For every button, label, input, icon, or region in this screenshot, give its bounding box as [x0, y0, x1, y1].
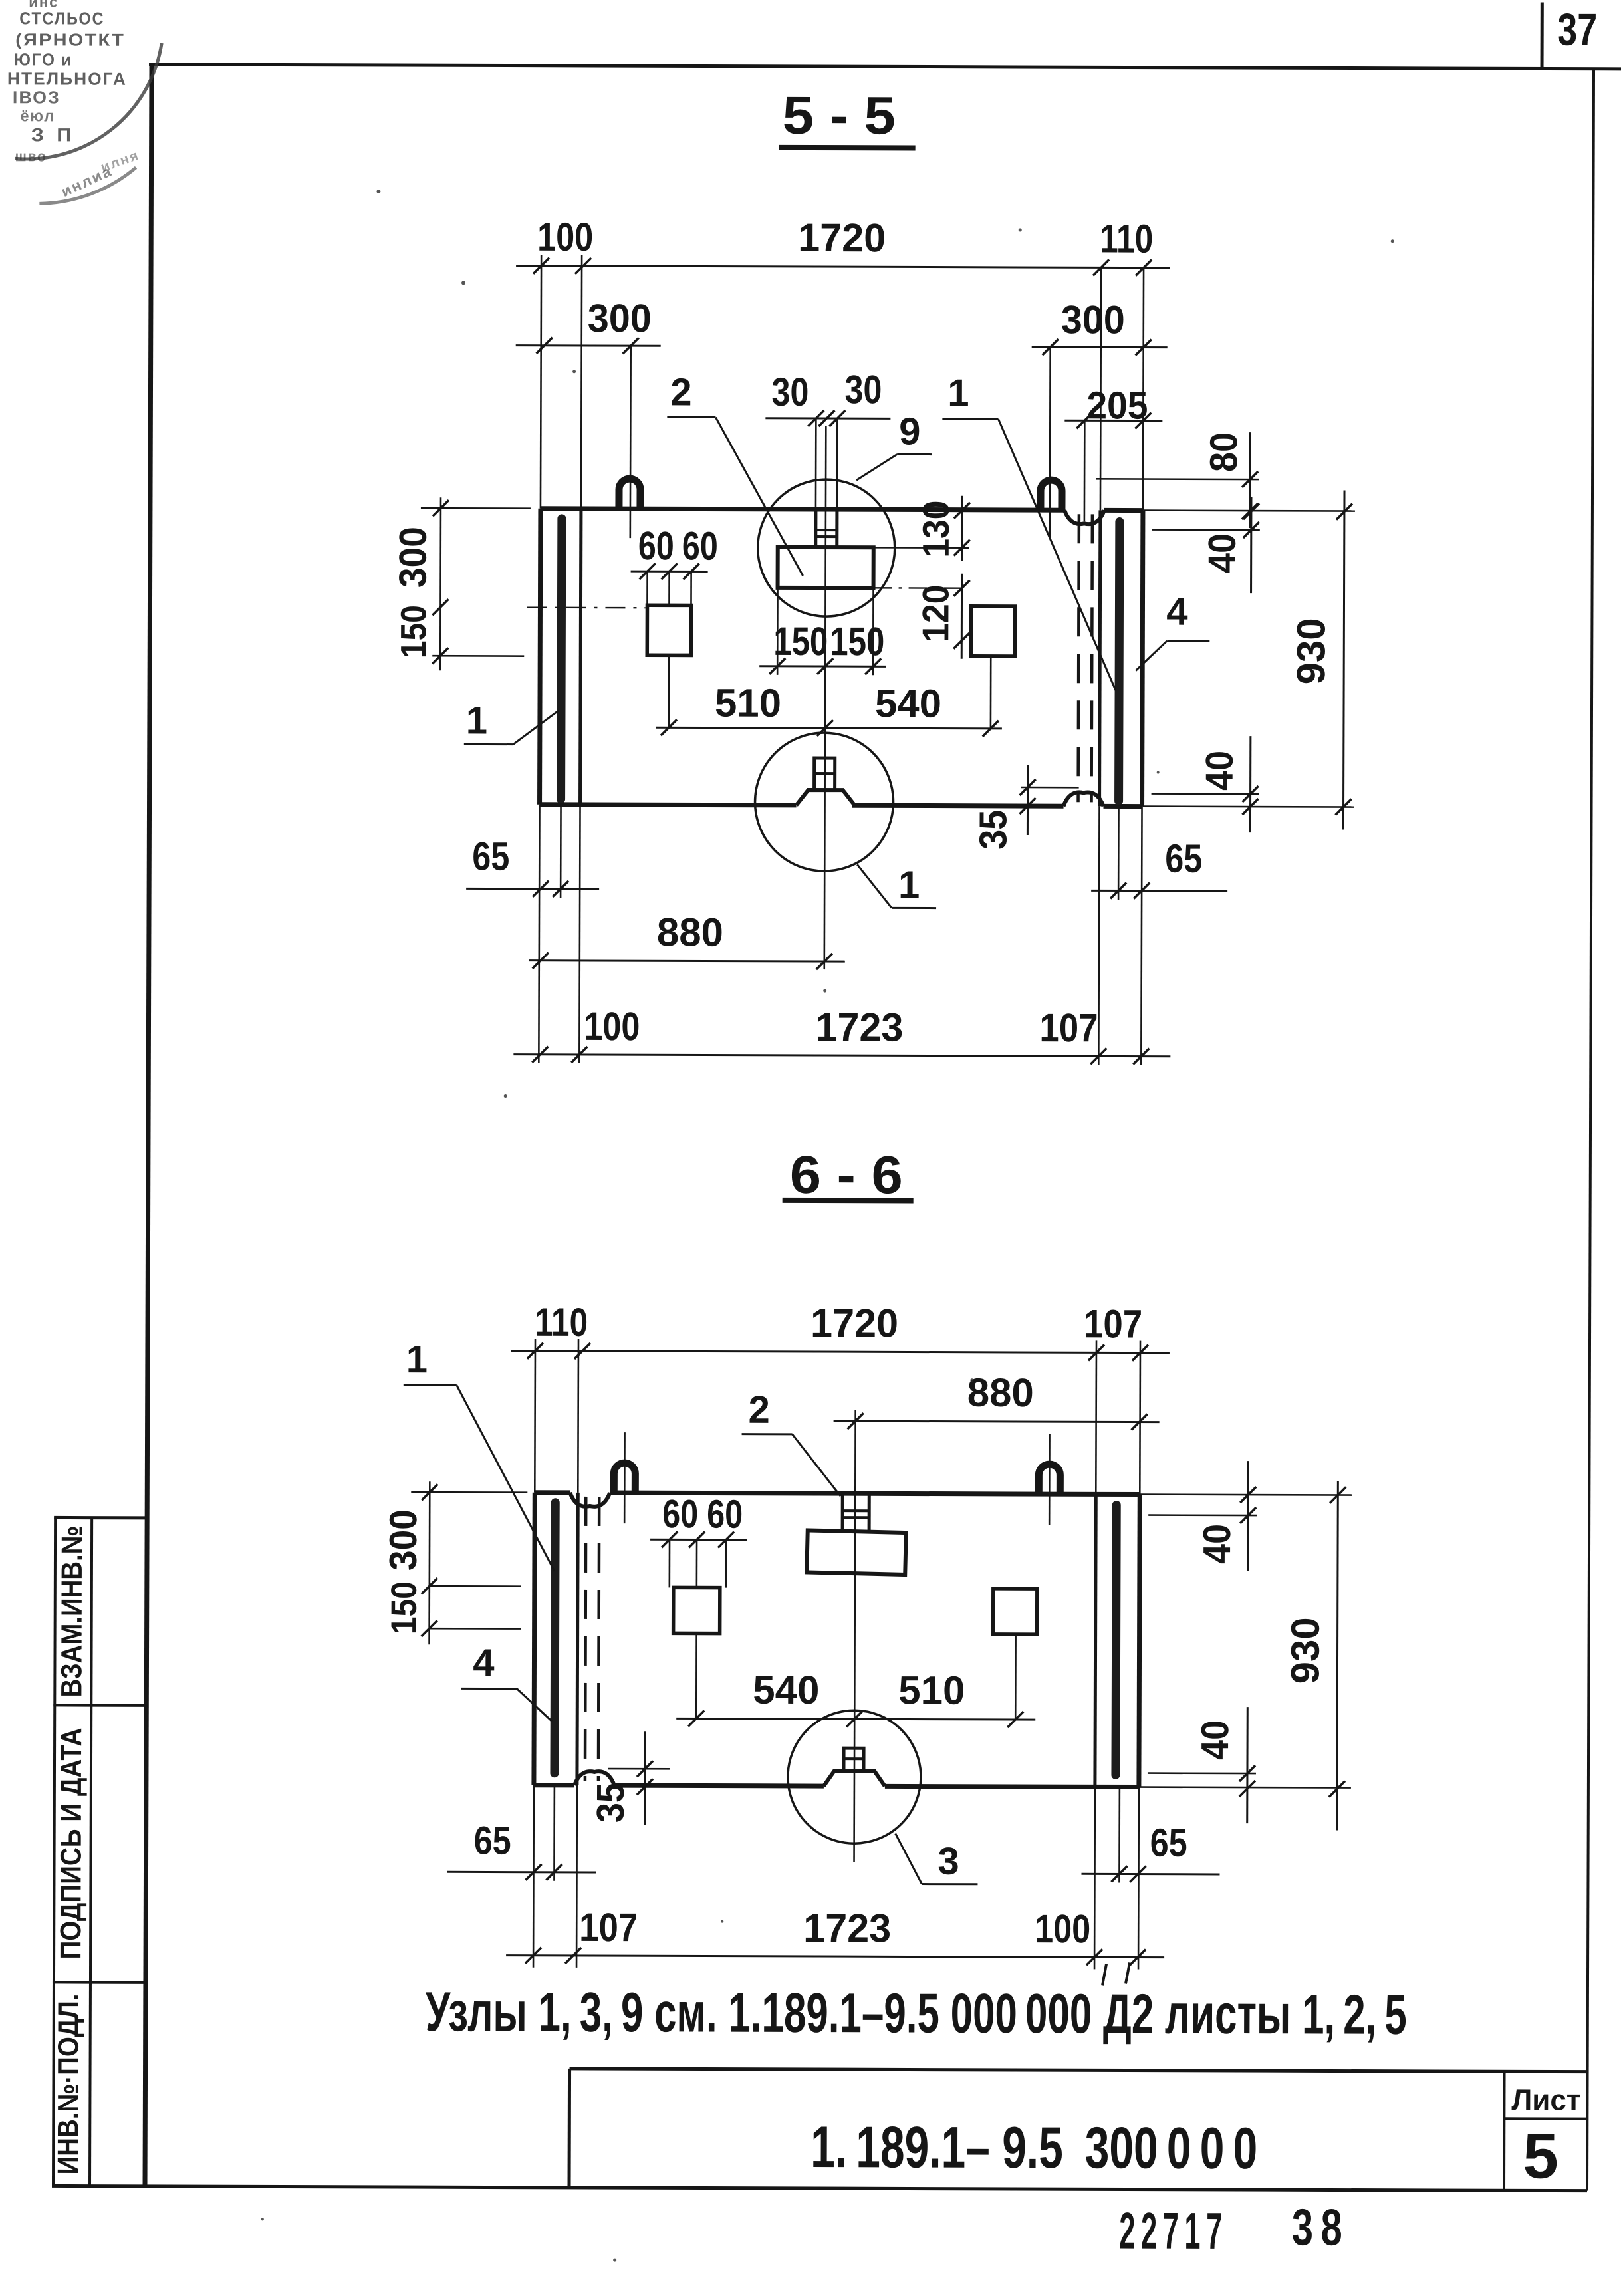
svg-text:37: 37 — [1557, 5, 1597, 55]
svg-text:НТЕЛЬНОГА: НТЕЛЬНОГА — [7, 68, 127, 89]
svg-text:540: 540 — [753, 1668, 819, 1712]
dim 65 right (6-6) — [1081, 1873, 1219, 1876]
svg-text:150: 150 — [394, 605, 434, 658]
svg-text:880: 880 — [967, 1370, 1034, 1415]
scan speckles — [376, 190, 380, 193]
panel 6-6 left edge — [534, 1493, 535, 1785]
anchor detail H at top center — [814, 509, 817, 547]
dim 65 left (6-6) — [447, 1871, 596, 1874]
svg-text:40: 40 — [1198, 751, 1241, 791]
corner stamp arc — [15, 43, 162, 159]
svg-text:30: 30 — [771, 370, 809, 414]
svg-text:5: 5 — [1523, 2120, 1559, 2192]
svg-text:ІВОЗ: ІВОЗ — [13, 87, 61, 107]
panel 5-5 centerline — [824, 426, 826, 969]
svg-text:65: 65 — [472, 834, 509, 878]
svg-text:120: 120 — [914, 584, 956, 642]
svg-text:80: 80 — [1202, 432, 1245, 472]
lifting loop right (6-6) — [1039, 1464, 1060, 1494]
panel 6-6 centerline — [854, 1410, 856, 1862]
svg-text:40: 40 — [1201, 533, 1244, 573]
svg-text:40: 40 — [1195, 1524, 1239, 1564]
svg-text:1: 1 — [898, 863, 920, 906]
svg-text:300: 300 — [392, 527, 435, 588]
svg-text:60: 60 — [682, 523, 718, 568]
svg-text:540: 540 — [875, 681, 941, 725]
dim 110/1720/107 top (6-6) — [511, 1351, 1170, 1353]
svg-text:2: 2 — [748, 1388, 769, 1432]
stray pen marks — [1102, 1964, 1106, 1985]
dim 930 vertical — [1343, 491, 1344, 830]
dim 65 right — [1091, 890, 1227, 892]
dim 107/1723/100 bottom (6-6) — [506, 1956, 1164, 1958]
dim 120 vertical — [961, 574, 963, 659]
sheet frame border right — [1587, 69, 1594, 2191]
dim 60 60 (6-6) — [650, 1539, 747, 1541]
svg-text:65: 65 — [1165, 836, 1202, 881]
detail circle node 9 — [757, 479, 895, 617]
svg-text:ИНВ.№·ПОДЛ.: ИНВ.№·ПОДЛ. — [52, 1993, 85, 2174]
leader pos.1 bottom — [892, 907, 936, 909]
svg-text:1720: 1720 — [810, 1301, 898, 1345]
svg-text:Узлы 1, 3, 9 см. 1.189.1–9.5: Узлы 1, 3, 9 см. 1.189.1–9.5 000 000 Д2 … — [426, 1980, 1407, 2046]
svg-text:150: 150 — [384, 1581, 424, 1634]
dim 80 vertical — [1249, 432, 1251, 528]
gasket strip 1 left — [561, 519, 562, 799]
svg-text:3: 3 — [937, 1840, 959, 1883]
title block — [570, 2069, 1588, 2072]
svg-text:2 2 7 1 7: 2 2 7 1 7 — [1119, 2201, 1222, 2259]
svg-text:60: 60 — [707, 1492, 743, 1537]
svg-text:300: 300 — [382, 1509, 425, 1571]
svg-text:930: 930 — [1283, 1617, 1327, 1684]
svg-text:4: 4 — [473, 1641, 494, 1684]
dim 300/150 left vertical — [433, 500, 449, 516]
anchor plate 2 (6-6) — [807, 1530, 906, 1575]
svg-text:ЮГО и: ЮГО и — [14, 49, 72, 69]
svg-text:130: 130 — [915, 500, 957, 557]
svg-text:107: 107 — [579, 1905, 638, 1950]
left strip boxes — [53, 1517, 55, 2186]
sheet frame border left — [145, 63, 152, 2186]
panel 6-6 left lip line — [577, 1493, 578, 1785]
panel 6-6 bottom edge with groove and key bump — [534, 1783, 574, 1787]
svg-text:(ЯРНОТКТ: (ЯРНОТКТ — [15, 29, 125, 50]
dim 40 bottom vertical — [1249, 736, 1251, 832]
panel 6-6 right lip line — [1095, 1494, 1096, 1787]
panel 6-6 top edge with groove — [535, 1490, 570, 1495]
svg-text:35: 35 — [971, 810, 1015, 850]
svg-text:ёюл: ёюл — [21, 107, 55, 125]
dim 40 top vertical (6-6) — [1247, 1461, 1249, 1571]
svg-text:З П: З П — [31, 124, 75, 145]
svg-text:205: 205 — [1086, 384, 1148, 427]
svg-text:30: 30 — [844, 367, 882, 412]
leader pos.1 (6-6) — [404, 1384, 457, 1386]
dim 35 vertical — [1027, 765, 1029, 835]
svg-text:1720: 1720 — [798, 215, 886, 260]
svg-text:Лист: Лист — [1511, 2083, 1580, 2116]
panel 6-6 right edge — [1139, 1495, 1140, 1787]
svg-text:65: 65 — [474, 1818, 511, 1862]
leader pos.2 — [667, 416, 715, 418]
panel 6-6 hidden joint dashed lines — [585, 1497, 586, 1781]
svg-text:60: 60 — [638, 523, 674, 568]
leader pos.9 — [897, 453, 932, 455]
svg-text:6 - 6: 6 - 6 — [790, 1145, 903, 1205]
detail circle node 1 bottom — [755, 733, 894, 872]
page number box 37 — [1541, 2, 1544, 68]
dim 930 vertical (6-6) — [1337, 1481, 1338, 1830]
lifting loop left — [619, 479, 640, 509]
dim 130 vertical — [961, 496, 963, 561]
detail circle node 3 — [788, 1710, 922, 1844]
dim 300 left — [516, 344, 661, 347]
svg-text:2: 2 — [670, 370, 691, 414]
svg-text:930: 930 — [1289, 618, 1333, 684]
svg-text:880: 880 — [657, 910, 723, 954]
extension lines 6-6 — [534, 1339, 536, 1493]
leader pos.4 (6-6) — [461, 1688, 517, 1690]
dim 100/1723/107 bottom — [513, 1055, 1170, 1057]
svg-text:3 8: 3 8 — [1292, 2198, 1342, 2256]
svg-text:100: 100 — [584, 1004, 640, 1049]
dim 880 — [529, 961, 845, 961]
dim 205 — [1064, 420, 1162, 422]
svg-text:100: 100 — [537, 215, 593, 259]
sheet frame border top — [149, 64, 1621, 69]
dim 60 60 — [631, 571, 708, 573]
svg-text:60: 60 — [662, 1491, 698, 1536]
dim 300/150 left vertical (6-6) — [422, 1484, 437, 1500]
panel 5-5 right lip line — [1100, 510, 1100, 806]
svg-text:СТСЛЬОС: СТСЛЬОС — [19, 8, 104, 28]
hole square left (6-6) — [674, 1587, 720, 1633]
leader pos.3 (6-6) — [922, 1883, 977, 1885]
lifting loop right — [1041, 480, 1062, 510]
dim 150 150 — [759, 665, 886, 668]
hole square right — [971, 606, 1015, 656]
dim 880 (6-6) — [834, 1421, 1160, 1422]
panel 5-5 right edge — [1142, 511, 1143, 807]
lifting loop left (6-6) — [614, 1463, 635, 1493]
svg-text:300: 300 — [588, 296, 652, 340]
panel 5-5 left edge — [540, 509, 541, 805]
svg-text:65: 65 — [1150, 1821, 1187, 1865]
svg-text:1: 1 — [466, 699, 487, 742]
panel 5-5 top edge with groove — [541, 509, 1064, 510]
svg-text:шво: шво — [15, 148, 47, 164]
gasket strip 4 right — [1119, 521, 1120, 801]
svg-text:1: 1 — [947, 372, 969, 415]
squares centerline dash-dot — [527, 606, 645, 608]
leader pos.1 top right — [942, 418, 998, 420]
anchor plate 2 — [778, 547, 874, 588]
svg-text:300: 300 — [1061, 297, 1125, 342]
dim 30 30 — [765, 417, 890, 420]
dim 300 right — [1032, 346, 1168, 349]
hole square right (6-6) — [993, 1589, 1037, 1634]
svg-text:150: 150 — [830, 619, 884, 664]
svg-text:110: 110 — [1100, 216, 1153, 261]
svg-text:9: 9 — [899, 410, 920, 453]
dim 40 bottom vertical (6-6) — [1246, 1707, 1249, 1823]
dim 540 510 (6-6) — [676, 1718, 1035, 1720]
svg-text:35: 35 — [589, 1783, 632, 1823]
svg-text:40: 40 — [1193, 1720, 1237, 1760]
panel 5-5 left lip line — [580, 509, 581, 805]
bottom anchor detail — [814, 758, 835, 790]
dim 100/1720/110 top — [516, 266, 1170, 268]
gasket strip right (6-6) — [1116, 1505, 1116, 1775]
leader pos.1 left — [464, 743, 513, 745]
svg-text:5 - 5: 5 - 5 — [783, 86, 896, 146]
panel 5-5 hidden joint dashed lines — [1078, 514, 1079, 802]
svg-text:510: 510 — [715, 681, 781, 725]
bottom anchor detail (6-6) — [844, 1748, 864, 1771]
svg-text:510: 510 — [898, 1668, 965, 1712]
svg-text:4: 4 — [1166, 590, 1187, 634]
anchor detail H (6-6) — [841, 1493, 844, 1531]
svg-text:ВЗАМ.ИНВ.№: ВЗАМ.ИНВ.№ — [55, 1525, 88, 1697]
svg-text:ПОДПИСЬ И ДАТА: ПОДПИСЬ И ДАТА — [55, 1727, 88, 1959]
leader pos.2 (6-6) — [742, 1433, 793, 1435]
hole square left — [647, 605, 691, 655]
dim 510 540 — [656, 727, 1002, 729]
extension lines 5-5 — [541, 255, 541, 509]
sheet frame border bottom — [52, 2186, 1587, 2190]
leader pos.4 right — [1167, 640, 1209, 642]
svg-text:1: 1 — [406, 1338, 428, 1381]
dim 40 top vertical — [1250, 497, 1252, 593]
svg-text:1. 189.1– 9.5 300 0 0 0: 1. 189.1– 9.5 300 0 0 0 — [810, 2114, 1257, 2181]
svg-text:100: 100 — [1035, 1906, 1090, 1951]
svg-text:107: 107 — [1084, 1301, 1142, 1346]
svg-text:110: 110 — [535, 1300, 588, 1344]
svg-text:1723: 1723 — [803, 1906, 891, 1950]
svg-text:1723: 1723 — [815, 1005, 903, 1049]
gasket strip 1 left (6-6) — [555, 1503, 555, 1773]
dim 35 vertical (6-6) — [644, 1731, 646, 1825]
svg-text:150: 150 — [773, 619, 828, 664]
panel 5-5 bottom edge with key bump and groove — [540, 805, 797, 805]
svg-text:107: 107 — [1039, 1005, 1098, 1050]
dim 65 left — [466, 888, 599, 890]
